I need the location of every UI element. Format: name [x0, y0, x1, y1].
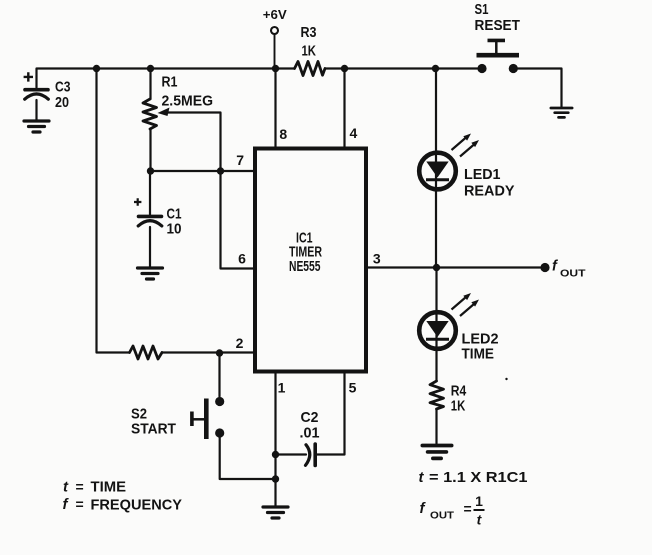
resistor (pin 2 series)	[130, 346, 163, 359]
svg-text:= 1.1 X R1C1: = 1.1 X R1C1	[429, 469, 528, 486]
svg-text:.01: .01	[300, 425, 320, 442]
pushbutton S1	[477, 40, 520, 73]
svg-text:1K: 1K	[302, 43, 317, 60]
wire R1 bottom lead	[149, 129, 151, 171]
switch S1 wire to ground	[518, 69, 562, 107]
wire C2 left lead	[276, 453, 307, 455]
svg-text:10: 10	[167, 221, 182, 238]
ground under C1	[138, 268, 163, 279]
svg-text:2.5MEG: 2.5MEG	[162, 93, 214, 110]
LED2	[419, 293, 479, 349]
wire top rail right segment	[325, 67, 482, 69]
svg-text:+6V: +6V	[263, 8, 288, 22]
wire C1 bottom lead	[149, 227, 151, 267]
junction on rail at LED column	[432, 65, 439, 72]
svg-text:S1: S1	[475, 1, 489, 18]
junction on rail at C3/left branch	[93, 65, 100, 72]
wire pin 1 stub down	[274, 374, 276, 480]
svg-text:RESET: RESET	[475, 17, 521, 34]
svg-text:C2: C2	[301, 409, 319, 426]
legend f = FREQUENCY	[63, 496, 183, 514]
wire pin 8 stub	[274, 69, 276, 147]
svg-text:TIME: TIME	[91, 479, 127, 496]
svg-text:20: 20	[55, 94, 69, 111]
junction C2 left	[272, 451, 279, 458]
wire left branch down to pin 2	[97, 69, 130, 353]
svg-text:FREQUENCY: FREQUENCY	[91, 497, 183, 514]
junction pin 2 at S2	[216, 349, 223, 356]
svg-text:TIME: TIME	[462, 346, 495, 363]
svg-text:=: =	[76, 479, 84, 495]
svg-text:5: 5	[349, 380, 357, 396]
svg-text:7: 7	[236, 152, 244, 168]
junction bottom ground	[272, 475, 279, 482]
svg-text:START: START	[131, 421, 176, 438]
capacitor C2	[306, 444, 316, 466]
svg-text:3: 3	[373, 251, 381, 267]
svg-text:8: 8	[279, 126, 287, 142]
wire S2 bottom lead	[220, 438, 276, 480]
ground under C3	[24, 121, 49, 132]
wire C2 right lead / pin 5 stub	[315, 374, 344, 455]
junction pin 7 at wiper	[217, 167, 224, 174]
ground under S1	[551, 108, 572, 117]
svg-text:1: 1	[278, 380, 286, 396]
svg-text:NE555: NE555	[289, 258, 321, 275]
wire R1 top lead	[149, 69, 151, 100]
junction pin 7 at R1	[147, 167, 154, 174]
ground under pin 1	[263, 507, 288, 518]
formula t = 1.1 X R1C1	[419, 469, 528, 486]
output terminal dot fOUT	[540, 263, 549, 272]
svg-text:1K: 1K	[451, 398, 466, 415]
potentiometer R1	[143, 99, 157, 129]
wire LED column	[435, 69, 438, 444]
svg-text:R3: R3	[301, 24, 317, 41]
wire pin 3 output line	[366, 266, 545, 268]
ground under R4	[422, 446, 451, 459]
plus sign for C3	[24, 72, 33, 81]
junction pin 3 at LED column	[433, 264, 440, 271]
legend t = TIME	[63, 479, 126, 496]
wire top rail left segment	[37, 69, 295, 88]
wire R1 wiper to junction	[167, 113, 221, 172]
wire junction to pin 6	[221, 171, 254, 269]
speck artifact	[505, 378, 507, 380]
junction on rail at R1	[147, 65, 154, 72]
svg-text:C3: C3	[55, 79, 71, 96]
svg-text:4: 4	[350, 125, 358, 141]
wire pin 4 stub	[343, 69, 345, 147]
wiper arrowhead	[158, 108, 170, 117]
label fOUT at output	[552, 259, 586, 280]
capacitor C1	[138, 216, 162, 226]
plus sign for C1	[134, 198, 141, 205]
wire C3 bottom lead	[35, 100, 37, 120]
junction on rail at pin 4	[341, 65, 348, 72]
LED1	[419, 134, 479, 190]
resistor R4	[430, 381, 444, 409]
svg-text:READY: READY	[464, 183, 515, 200]
IC box U1 NE555	[255, 149, 366, 372]
wire C1 top lead	[149, 171, 151, 215]
svg-text:OUT: OUT	[430, 510, 455, 522]
power terminal +6V	[271, 27, 278, 34]
wire +6V terminal drop	[274, 34, 276, 68]
svg-text:6: 6	[238, 251, 246, 267]
wire pin 2 stub	[162, 351, 253, 353]
resistor R3	[295, 62, 326, 76]
wire ground stem bottom	[274, 479, 276, 506]
formula fOUT = 1/t	[420, 493, 485, 528]
svg-text:=: =	[464, 501, 472, 517]
svg-text:OUT: OUT	[560, 268, 586, 280]
wire pin 7 stub	[151, 170, 254, 172]
svg-text:2: 2	[236, 335, 244, 351]
svg-text:R1: R1	[162, 74, 178, 91]
svg-text:LED1: LED1	[464, 166, 501, 183]
wire S2 top lead	[218, 353, 220, 397]
junction on rail at pin 8	[272, 65, 279, 72]
capacitor C3	[25, 90, 49, 100]
svg-text:=: =	[76, 496, 84, 512]
svg-text:1: 1	[475, 493, 483, 509]
pushbutton S2	[192, 397, 224, 439]
